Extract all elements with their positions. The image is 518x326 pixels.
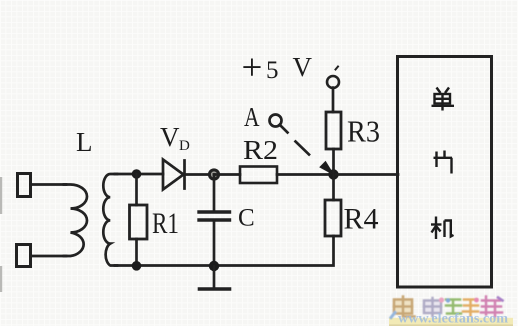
node diode/C/R2 junction (209, 170, 218, 179)
resistor R4 (325, 175, 341, 237)
node ground junction (209, 261, 219, 271)
label 片 (434, 151, 453, 174)
label A (244, 102, 260, 132)
svg-text:D: D (179, 138, 190, 154)
label 机 (431, 217, 454, 240)
label +5 V (242, 48, 313, 89)
node bottom-left junction (132, 261, 142, 271)
terminal +5V (327, 67, 339, 89)
MCU box U1 (398, 57, 492, 288)
watermark url (398, 311, 509, 326)
svg-text:L: L (76, 127, 93, 157)
node output junction (328, 169, 338, 179)
scan edge artifact left (0, 177, 2, 292)
diode VD (163, 160, 185, 190)
terminal J2 (17, 245, 31, 267)
label C (238, 205, 255, 232)
wire diode to node (185, 173, 215, 176)
svg-text:C: C (238, 205, 255, 232)
wire node to R2 (214, 173, 240, 176)
capacitor C (199, 175, 230, 266)
wire +5V to R3 (332, 88, 335, 112)
svg-text:V: V (160, 122, 180, 152)
svg-text:R2: R2 (243, 135, 278, 165)
terminal A (270, 115, 282, 127)
wire output node to MCU (334, 173, 399, 176)
svg-text:A: A (244, 102, 260, 132)
node top-left junction (132, 169, 142, 179)
label R3 (347, 114, 380, 149)
label R1 (152, 207, 179, 240)
svg-text:R3: R3 (347, 114, 380, 149)
watermark band (389, 318, 513, 326)
resistor R3 (326, 112, 341, 149)
wire top rail coil to diode (115, 173, 163, 176)
transformer secondary coil (103, 174, 117, 266)
ground (200, 266, 230, 289)
label R2 (243, 135, 278, 165)
svg-text:+: + (242, 48, 263, 89)
wire R3 to output node (332, 149, 335, 175)
label VD (160, 122, 190, 154)
svg-text:5: 5 (266, 57, 279, 84)
inductor L primary coil (64, 185, 87, 257)
label 单 (432, 88, 455, 111)
switch wiper dashed arrow (280, 125, 334, 175)
terminal J1 (18, 174, 31, 197)
svg-text:R4: R4 (344, 203, 379, 236)
svg-text:R1: R1 (152, 207, 179, 240)
wire J1 to coil (31, 183, 66, 186)
resistor R2 (240, 167, 277, 184)
svg-text:V: V (293, 52, 313, 82)
resistor R1 (130, 174, 148, 266)
label R4 (344, 203, 379, 236)
svg-text:www.elecfans.com: www.elecfans.com (398, 311, 509, 326)
wire bottom rail (115, 236, 334, 266)
watermark characters (391, 297, 503, 318)
label L (76, 127, 93, 157)
wire J2 to coil (31, 255, 66, 258)
wire R2 to output node (277, 173, 334, 176)
